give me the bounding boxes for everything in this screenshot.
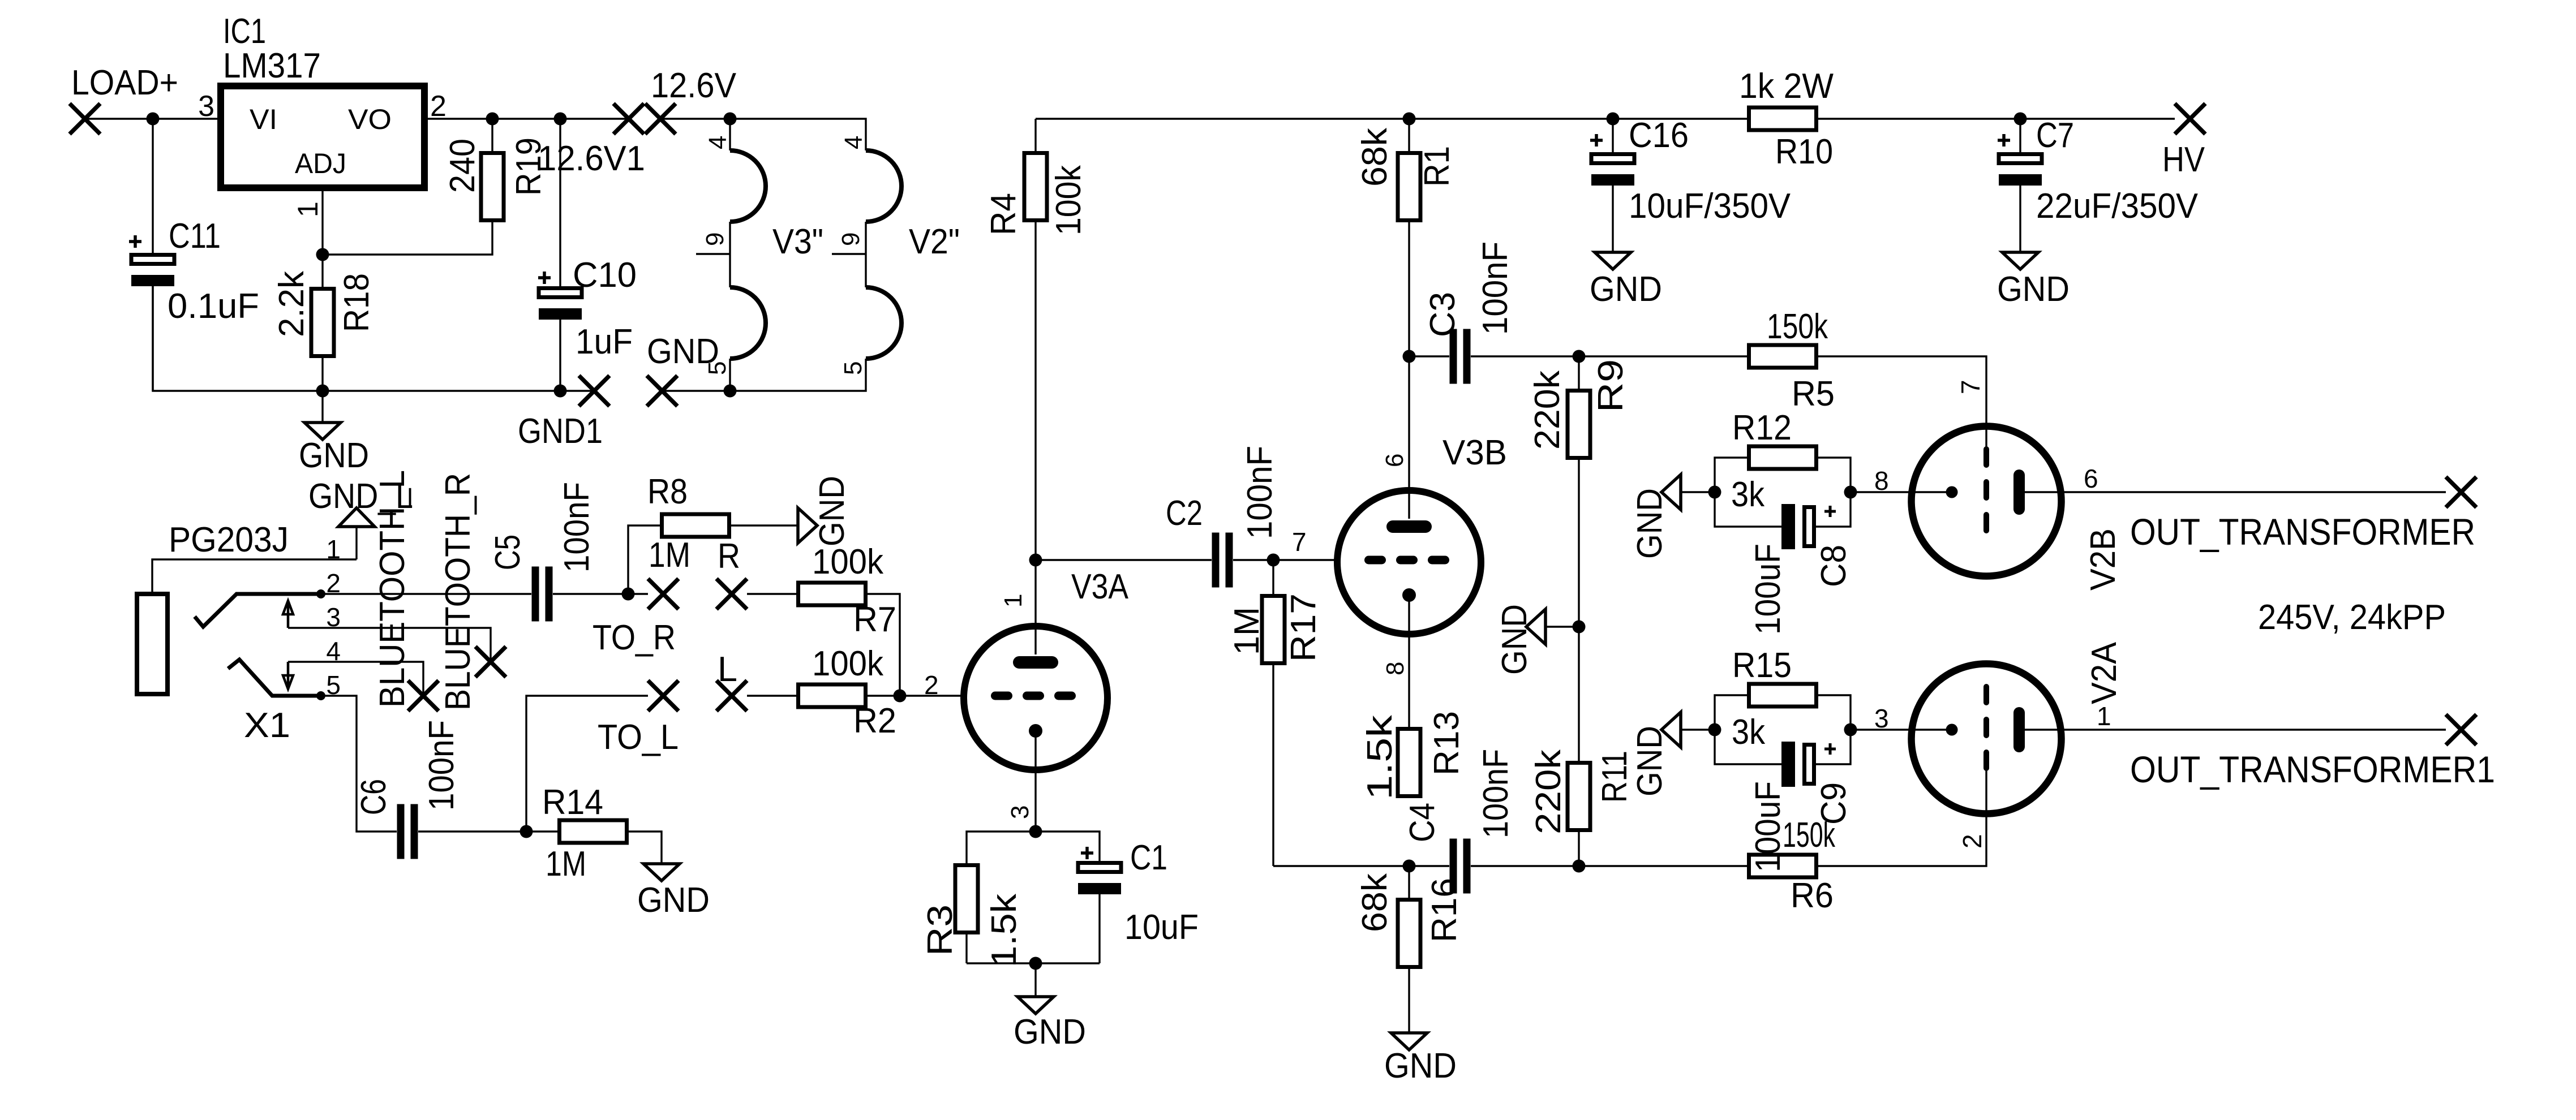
svg-text:R10: R10	[1775, 132, 1833, 171]
junction pin5	[316, 691, 325, 700]
svg-text:GND: GND	[813, 476, 852, 546]
note 245V 24kPP	[2258, 598, 2446, 637]
svg-text:GND: GND	[1014, 1013, 1086, 1052]
node GND bottom stub	[647, 332, 719, 406]
node HV	[2162, 104, 2205, 179]
svg-text:1: 1	[999, 594, 1027, 608]
resistor R16	[1355, 866, 1464, 1033]
junction R9 top	[1573, 350, 1586, 363]
svg-text:C2: C2	[1166, 494, 1203, 533]
wire IC1 VO to 12.6V rail	[424, 118, 629, 119]
pin 1 IC1	[292, 201, 324, 217]
node TO_R	[593, 579, 679, 657]
svg-text:3k: 3k	[1732, 713, 1766, 752]
junction R13 bottom	[1403, 860, 1416, 873]
svg-text:R14: R14	[542, 783, 603, 822]
capacitor C4	[1403, 749, 1515, 894]
junction pin2	[316, 589, 325, 598]
svg-text:VI: VI	[250, 104, 277, 135]
svg-text:1uF: 1uF	[576, 322, 633, 361]
svg-text:C10: C10	[573, 256, 637, 295]
wire pin5 to C6	[321, 696, 397, 832]
pin 4 X1	[288, 636, 423, 696]
junction C2 right	[1267, 554, 1280, 567]
node OUT_TRANSFORMER1	[2130, 714, 2495, 790]
svg-text:2: 2	[1957, 834, 1987, 848]
resistor R9	[1528, 356, 1630, 627]
svg-text:100k: 100k	[812, 542, 884, 581]
svg-text:100uF: 100uF	[1749, 781, 1788, 872]
triode V3B	[1337, 433, 1507, 634]
switch arrow pin4	[283, 662, 293, 689]
svg-text:OUT_TRANSFORMER: OUT_TRANSFORMER	[2130, 511, 2475, 553]
junction V3A grid-plate node	[1029, 554, 1042, 567]
svg-text:C3: C3	[1423, 292, 1462, 337]
svg-text:HV: HV	[2162, 140, 2205, 179]
svg-text:6: 6	[1381, 454, 1409, 467]
pin 8 V3B	[1381, 595, 1409, 727]
svg-text:68k: 68k	[1355, 873, 1394, 932]
capacitor C9	[1715, 730, 1853, 872]
svg-text:1M: 1M	[649, 536, 690, 575]
ground below R16	[1384, 1033, 1457, 1085]
svg-text:GND: GND	[1630, 488, 1669, 559]
svg-text:V3B: V3B	[1442, 433, 1507, 472]
svg-text:V2": V2"	[909, 222, 960, 261]
pin 8 V2B	[1851, 466, 1952, 496]
svg-text:GND: GND	[299, 436, 369, 475]
svg-text:240: 240	[443, 139, 482, 193]
svg-text:220k: 220k	[1528, 370, 1567, 450]
svg-text:R15: R15	[1732, 646, 1792, 685]
pin 2 V2A	[1957, 834, 1987, 848]
pin 6 V2B	[2019, 464, 2446, 493]
wire ADJ	[321, 188, 323, 255]
svg-text:L: L	[718, 650, 737, 689]
pin 1 V3A	[999, 560, 1036, 654]
capacitor C3	[1409, 242, 1515, 384]
resistor R3	[921, 832, 1036, 967]
wire C6 to R14	[418, 830, 557, 832]
svg-text:GND: GND	[637, 881, 710, 920]
svg-text:R13: R13	[1427, 711, 1466, 776]
resistor R11	[1529, 627, 1634, 866]
resistor R1	[1355, 119, 1457, 356]
svg-text:1.5k: 1.5k	[985, 893, 1024, 967]
pin 1 V2A	[2019, 701, 2446, 731]
svg-text:GND1: GND1	[518, 412, 603, 451]
svg-text:V2A: V2A	[2085, 641, 2124, 704]
wire R14 to ground	[629, 832, 662, 864]
svg-text:1k 2W: 1k 2W	[1739, 67, 1834, 106]
svg-text:X1: X1	[244, 706, 290, 745]
svg-text:ADJ: ADJ	[295, 148, 346, 179]
svg-text:V2B: V2B	[2084, 528, 2123, 591]
wire R5 to V2B grid	[1818, 356, 1986, 449]
wire C5 to TO_R node	[553, 593, 648, 595]
svg-text:C9: C9	[1814, 782, 1853, 825]
junction C10 bottom	[554, 385, 567, 398]
capacitor C5	[488, 482, 596, 622]
resistor R18	[272, 255, 376, 391]
svg-text:3: 3	[326, 602, 341, 632]
resistor R13	[1360, 711, 1466, 800]
wire GND rail below C11	[153, 286, 594, 391]
capacitor C11	[129, 119, 259, 391]
ground left of R15	[1630, 712, 1681, 796]
svg-text:GND: GND	[1997, 270, 2070, 309]
pin 2 V3A	[900, 670, 964, 700]
wire R3-C1 bottom	[967, 962, 1100, 964]
svg-text:100k: 100k	[1049, 165, 1088, 235]
capacitor C8	[1715, 492, 1853, 635]
capacitor C16	[1590, 116, 1791, 252]
node OUT_TRANSFORMER	[2130, 477, 2476, 553]
junction R15 right	[1844, 723, 1857, 736]
svg-text:BLUETOOTH_L: BLUETOOTH_L	[373, 470, 412, 708]
ground below R18	[299, 391, 369, 475]
junction R1 top	[1403, 113, 1416, 126]
svg-text:4: 4	[704, 136, 732, 149]
ground below V3A cathode	[1014, 963, 1086, 1052]
junction V3 heater top	[724, 113, 737, 126]
capacitor C10	[538, 119, 637, 391]
junction R14 left	[520, 825, 533, 838]
pin 2 X1 tip contact	[195, 568, 341, 627]
svg-text:R1: R1	[1418, 146, 1457, 187]
svg-text:100nF: 100nF	[1476, 242, 1515, 335]
pin 3 V3A	[1006, 731, 1036, 832]
svg-text:9: 9	[701, 232, 729, 246]
junction V3A cathode node	[1029, 825, 1042, 838]
svg-text:3: 3	[1874, 704, 1889, 733]
wire pin1 to GND_L	[355, 527, 357, 559]
svg-text:R11: R11	[1595, 751, 1634, 803]
svg-text:IC1: IC1	[223, 12, 266, 51]
junction R15 left	[1708, 723, 1721, 736]
wire ADJ to R19	[323, 222, 492, 255]
resistor R15	[1715, 646, 1851, 752]
node GND1	[518, 376, 609, 451]
svg-text:1: 1	[326, 535, 341, 564]
resistor R4	[984, 119, 1088, 560]
svg-text:LOAD+: LOAD+	[71, 63, 178, 102]
wire winding bottom rail	[660, 359, 866, 391]
svg-text:2: 2	[924, 670, 939, 700]
svg-text:C8: C8	[1814, 545, 1853, 587]
junction cathode gnd node	[1029, 957, 1042, 970]
svg-text:R12: R12	[1732, 408, 1792, 447]
svg-text:TO_R: TO_R	[593, 618, 676, 657]
svg-text:7: 7	[1956, 380, 1985, 394]
svg-text:R2: R2	[853, 701, 896, 740]
ground after R14	[637, 864, 710, 920]
node R	[716, 537, 747, 609]
svg-text:9: 9	[837, 232, 865, 246]
svg-text:R7: R7	[853, 600, 896, 639]
node 12.6V	[645, 66, 737, 134]
node BLUETOOTH_L	[373, 470, 439, 711]
svg-text:R8: R8	[647, 472, 688, 511]
resistor R10	[1739, 67, 1834, 171]
svg-text:100k: 100k	[812, 644, 884, 683]
junction C10 top	[554, 113, 567, 126]
svg-text:10uF/350V: 10uF/350V	[1629, 187, 1791, 226]
connector X1 PG203J	[137, 520, 290, 745]
wire R6 to V2A grid	[1818, 766, 1986, 866]
wire HV rail	[1036, 118, 2175, 119]
svg-text:4: 4	[326, 636, 341, 666]
resistor R14	[542, 783, 627, 884]
svg-text:100uF: 100uF	[1749, 544, 1788, 635]
pin 3 V2A	[1851, 704, 1952, 733]
svg-text:3k: 3k	[1731, 475, 1765, 514]
svg-text:OUT_TRANSFORMER1: OUT_TRANSFORMER1	[2130, 748, 2495, 790]
svg-text:1M: 1M	[1227, 607, 1266, 655]
svg-text:C4: C4	[1403, 803, 1442, 842]
ground right of R8	[798, 476, 852, 546]
power tube V2B	[1912, 427, 2123, 591]
svg-text:3: 3	[198, 90, 214, 123]
junction C11 top	[147, 113, 160, 126]
svg-text:V3A: V3A	[1071, 567, 1129, 606]
svg-text:TO_L: TO_L	[598, 718, 679, 757]
pin 1 X1	[152, 535, 357, 592]
svg-text:8: 8	[1381, 662, 1409, 675]
ground at R9-R11 node	[1495, 604, 1579, 675]
resistor R5	[1749, 307, 1835, 413]
svg-text:220k: 220k	[1529, 749, 1568, 834]
svg-text:GND: GND	[1384, 1046, 1457, 1085]
wire LOAD+ to IC1 VI	[85, 118, 221, 119]
resistor R19	[443, 119, 548, 221]
svg-text:VO: VO	[348, 104, 392, 135]
resistor R6	[1749, 816, 1836, 915]
svg-text:245V, 24kPP: 245V, 24kPP	[2258, 598, 2446, 637]
junction R12 right	[1844, 486, 1857, 499]
svg-text:R6: R6	[1791, 876, 1834, 915]
wire C2 to R17 node	[1233, 559, 1273, 561]
svg-text:6: 6	[2084, 464, 2098, 493]
transformer winding V3"	[696, 119, 823, 391]
triode V3A	[964, 567, 1129, 770]
pin 3 IC1	[198, 90, 214, 123]
junction V3 heater bottom	[724, 385, 737, 398]
ground below C7	[1997, 252, 2070, 309]
svg-text:4: 4	[840, 136, 868, 149]
svg-text:R3: R3	[921, 904, 960, 956]
svg-text:22uF/350V: 22uF/350V	[2036, 187, 2199, 226]
junction C3 left	[1403, 350, 1416, 363]
capacitor C1	[1036, 832, 1199, 963]
svg-text:7: 7	[1292, 527, 1307, 557]
capacitor C2	[1166, 446, 1280, 588]
svg-text:0.1uF: 0.1uF	[168, 287, 259, 326]
junction R11 bottom	[1573, 860, 1586, 873]
junction R12 left	[1708, 486, 1721, 499]
ground flag GND_L	[308, 477, 413, 527]
svg-text:PG203J: PG203J	[169, 520, 289, 559]
wire C3 to R5	[1471, 355, 1747, 357]
svg-text:3: 3	[1006, 805, 1034, 819]
pin 7 V2B	[1956, 380, 1985, 394]
svg-text:BLUETOOTH_R: BLUETOOTH_R	[439, 473, 478, 710]
svg-text:5: 5	[839, 361, 867, 375]
op-amp IC1 LM317 regulator	[221, 12, 424, 188]
wire gnd to R12 network	[1681, 491, 1715, 493]
wire TO_L branch	[526, 696, 648, 832]
wire pin2 to C5	[321, 593, 531, 595]
svg-text:V3": V3"	[772, 222, 823, 261]
junction C16 top	[1607, 113, 1620, 126]
svg-text:R5: R5	[1792, 374, 1835, 413]
resistor R17	[1227, 560, 1323, 866]
svg-text:C6: C6	[354, 779, 393, 815]
svg-text:R4: R4	[984, 193, 1023, 235]
ground left of R12	[1630, 475, 1681, 559]
svg-text:C5: C5	[488, 535, 527, 570]
pin 6 V3B	[1381, 356, 1409, 519]
svg-text:12.6V: 12.6V	[651, 66, 737, 105]
junction R2-R7 node	[894, 690, 907, 703]
svg-text:8: 8	[1874, 466, 1889, 496]
svg-text:GND: GND	[1630, 726, 1669, 796]
node L	[716, 650, 747, 711]
junction ADJ node	[316, 248, 329, 261]
svg-text:5: 5	[703, 361, 731, 375]
resistor R8	[628, 472, 798, 594]
svg-text:1.5k: 1.5k	[1360, 714, 1399, 800]
junction R9-R11 midpoint	[1573, 621, 1586, 634]
resistor R7	[747, 542, 900, 696]
pin 5 X1 ring contact	[228, 660, 341, 700]
transformer winding V2"	[832, 136, 960, 375]
pin 2 IC1	[430, 90, 446, 123]
svg-text:R17: R17	[1284, 593, 1323, 662]
wire 12.6V to windings	[660, 119, 866, 150]
svg-text:100nF: 100nF	[557, 482, 596, 572]
junction C7 top	[2014, 113, 2027, 126]
resistor R12	[1715, 408, 1851, 514]
pin 7 V3B wire	[1273, 527, 1338, 560]
svg-text:C7: C7	[2036, 116, 2074, 155]
svg-text:1: 1	[292, 201, 324, 217]
capacitor C7	[1998, 116, 2199, 252]
svg-text:GND: GND	[1495, 604, 1534, 675]
switch arrow pin3	[283, 601, 293, 628]
svg-text:150k: 150k	[1767, 307, 1828, 346]
node 12.6V1	[538, 104, 645, 178]
junction R19 top	[486, 113, 499, 126]
wire bottom feedback rail	[1273, 865, 1747, 867]
svg-text:100nF: 100nF	[1240, 446, 1280, 539]
svg-text:R16: R16	[1425, 878, 1464, 942]
svg-text:2.2k: 2.2k	[272, 270, 311, 337]
svg-text:68k: 68k	[1355, 127, 1394, 187]
svg-text:100nF: 100nF	[422, 720, 461, 811]
svg-text:C11: C11	[169, 217, 221, 256]
svg-text:R18: R18	[337, 273, 376, 332]
pin 3 X1	[288, 602, 491, 662]
resistor R2	[747, 644, 900, 740]
svg-text:R: R	[718, 537, 740, 576]
svg-text:1M: 1M	[546, 845, 586, 884]
wire to C2	[1036, 559, 1212, 561]
svg-text:100nF: 100nF	[1476, 749, 1515, 838]
svg-text:12.6V1: 12.6V1	[538, 139, 645, 178]
svg-text:1: 1	[2097, 701, 2111, 731]
svg-text:LM317: LM317	[223, 46, 321, 85]
wire gnd to R15 network	[1681, 729, 1715, 730]
node BLUETOOTH_R	[439, 473, 506, 710]
node LOAD+	[70, 63, 178, 134]
ground below C16	[1590, 252, 1662, 309]
svg-text:R9: R9	[1591, 359, 1630, 412]
svg-text:10uF: 10uF	[1124, 908, 1199, 947]
power tube V2A	[1912, 641, 2124, 813]
node TO_L	[598, 680, 679, 757]
svg-text:C1: C1	[1130, 838, 1167, 877]
junction R8 tap	[622, 588, 635, 601]
capacitor C6	[354, 720, 461, 859]
svg-text:GND: GND	[1590, 270, 1662, 309]
junction R18 bottom	[316, 385, 329, 398]
svg-text:C16: C16	[1629, 116, 1689, 155]
